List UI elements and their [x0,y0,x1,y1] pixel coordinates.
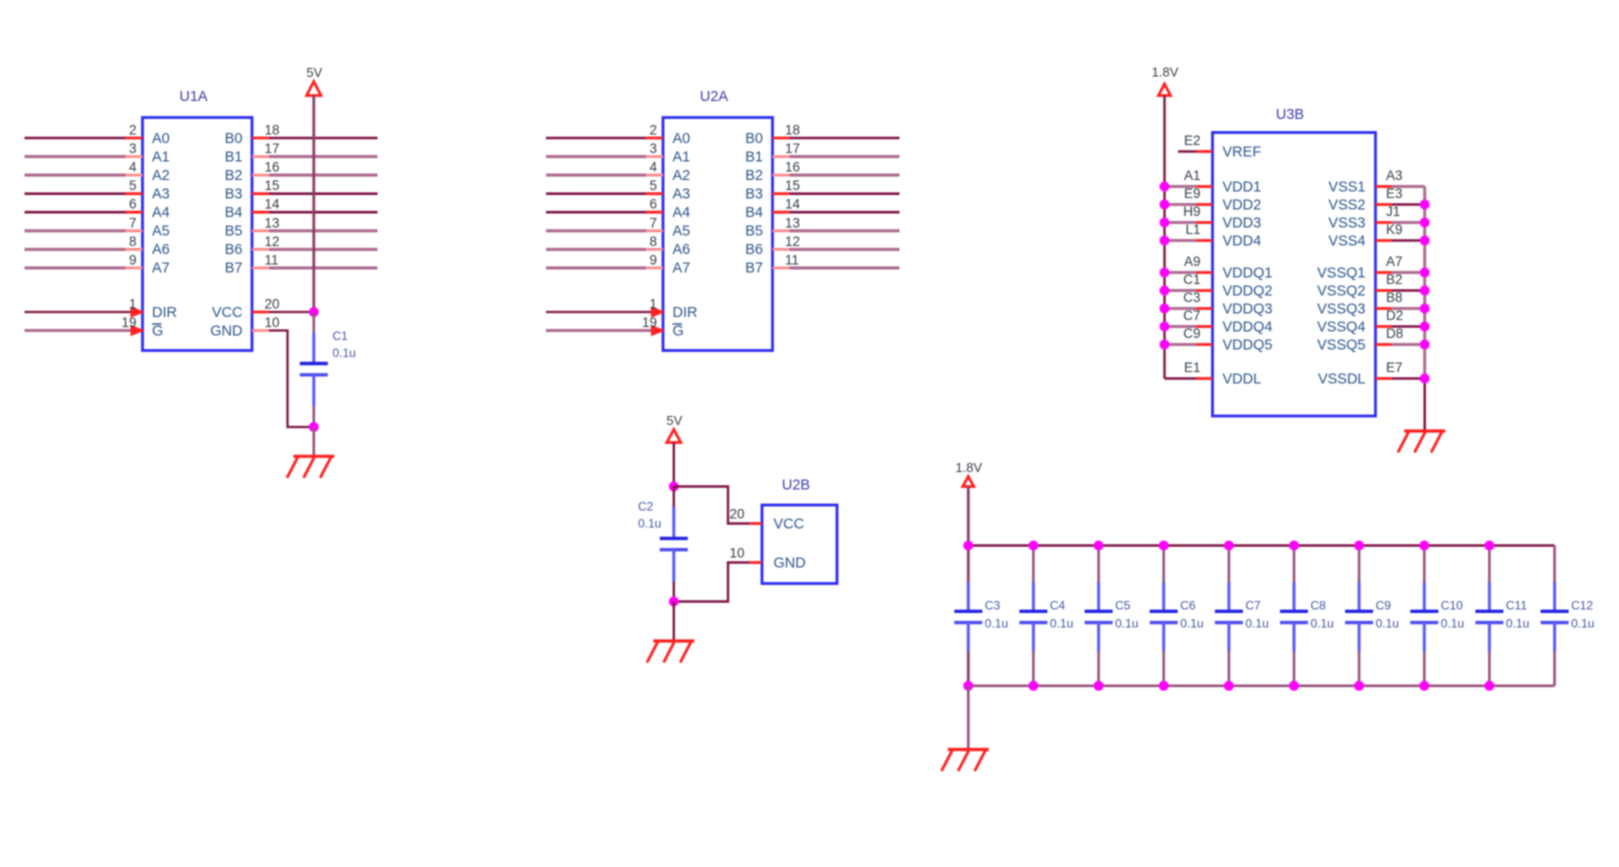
wire U1A A1 net [25,155,126,158]
svg-text:A4: A4 [673,205,691,221]
svg-text:GND: GND [774,555,806,571]
U3B pin E3 stub (VSS2) [1376,203,1392,206]
svg-text:U1A: U1A [179,89,208,105]
svg-text:VSSQ3: VSSQ3 [1317,301,1365,317]
svg-text:B1: B1 [225,149,243,165]
U3B pin H9 stub (VDD3) [1197,221,1213,224]
U1A pin 20 stub (VCC) [252,311,269,314]
U2A pin 18 stub (B0) [773,137,790,140]
svg-text:VSSQ1: VSSQ1 [1317,265,1365,281]
U1A pin 10 stub (GND) [252,329,269,332]
U2A pin 5 stub (A3) [646,192,663,195]
junction top rail / C9 [1354,541,1364,551]
wire U1A A6 net [25,248,126,251]
wire top rail branch to C4 [1032,546,1035,583]
svg-text:A3: A3 [673,187,691,203]
svg-text:A5: A5 [673,224,691,240]
wire U2A A2 net [546,174,646,177]
svg-text:0.1u: 0.1u [638,517,661,531]
U2A pin 4 stub (A2) [646,174,663,177]
svg-text:19: 19 [121,315,136,330]
U1A pin 12 stub (B6) [252,248,269,251]
svg-text:VDDQ4: VDDQ4 [1223,319,1273,335]
junction bottom rail / C9 [1354,681,1364,691]
svg-text:0.1u: 0.1u [1311,617,1334,631]
svg-text:C2: C2 [638,500,654,514]
U2A pin 7 stub (A5) [646,229,663,232]
junction bottom rail / C5 [1094,681,1104,691]
svg-text:VREF: VREF [1223,144,1262,160]
svg-text:3: 3 [129,141,137,156]
svg-text:B7: B7 [225,261,243,277]
U2A pin 2 stub (A0) [646,137,663,140]
svg-text:VDD1: VDD1 [1223,179,1262,195]
junction ground rail / VSSQ1 [1420,268,1430,278]
wire top rail branch to C9 [1358,546,1361,583]
junction 1.8V rail / VDD3 [1160,218,1170,228]
wire 1.8V rail segment to C3 [967,546,970,583]
svg-text:A1: A1 [1184,168,1201,183]
svg-text:DIR: DIR [673,305,698,321]
junction ground rail / VSSQ4 [1420,322,1430,332]
svg-text:5V: 5V [306,65,322,80]
wire U3B VSSQ4 to ground rail [1392,325,1425,327]
junction C2 / U2B GND / ground [669,597,679,607]
junction top rail / C5 [1094,541,1104,551]
svg-text:VDDQ5: VDDQ5 [1223,337,1273,353]
U2B pin 10 stub (GND) [750,561,763,564]
junction 1.8V rail / VDDQ2 [1160,286,1170,296]
wire U3B VSS3 to ground rail [1392,221,1425,224]
svg-text:18: 18 [265,123,280,138]
svg-text:0.1u: 0.1u [1441,617,1464,631]
junction ground rail / VSSQ3 [1420,304,1430,314]
wire U2A A1 net [546,155,646,158]
svg-text:VSS4: VSS4 [1328,233,1365,249]
wire C2 node to ground [673,602,675,641]
U1A pin 18 stub (B0) [252,137,269,140]
capacitor C5 [1085,582,1113,652]
wire U1A GND pin to ground node [269,331,314,428]
wire U2A A4 net [546,211,646,214]
U3B pin A9 stub (VDDQ1) [1197,271,1213,274]
C7 value labels [1245,599,1268,631]
svg-text:16: 16 [265,160,280,175]
wire 1.8V tap to U3B VDDQ4 [1165,325,1197,328]
svg-text:C9: C9 [1183,326,1200,341]
junction C1 / U1A GND / ground [309,422,319,432]
svg-text:17: 17 [265,141,280,156]
svg-text:A4: A4 [152,205,170,221]
svg-text:C12: C12 [1571,599,1593,613]
junction ground rail / VSSQ2 [1420,286,1430,296]
wire 1.8V tap to U3B VDDQ2 [1165,289,1197,292]
U1A pin 6 stub (A4) [126,211,143,214]
wire U3B VSSQ1 to ground rail [1392,271,1425,274]
ground (U1A / C1) [287,456,334,478]
wire U1A A0 net [25,137,126,140]
wire U2A B4 net [790,211,900,214]
U1A pin 9 stub (A7) [126,266,143,269]
U2A pin 16 stub (B2) [773,174,790,177]
capacitor C7 [1215,582,1243,652]
svg-text:8: 8 [129,234,137,249]
svg-text:D2: D2 [1386,308,1403,323]
wire U1A A7 net [25,266,126,269]
U3B pin C3 stub (VDDQ3) [1197,307,1213,310]
junction top rail / C8 [1289,541,1299,551]
wire U1A A3 net [25,192,126,195]
svg-text:B6: B6 [745,242,763,258]
U3B pin J1 stub (VSS3) [1376,221,1392,224]
U2A DIR input arrow [651,306,666,317]
svg-text:9: 9 [129,252,137,267]
svg-text:B3: B3 [745,187,763,203]
U3B pin A1 stub (VDD1) [1197,185,1213,188]
svg-text:C4: C4 [1050,599,1066,613]
junction U1A VCC / C1 / 5V [309,307,319,317]
svg-text:B2: B2 [745,168,763,184]
junction 1.8V rail / VDD4 [1160,236,1170,246]
junction bottom rail / C8 [1289,681,1299,691]
wire U2A A0 net [546,137,646,140]
wire C11 branch to bottom rail [1488,652,1491,686]
U1A pin 16 stub (B2) [252,174,269,177]
U3B pin E7 stub (VSSDL) [1376,377,1392,380]
C1 value labels [333,329,356,360]
svg-text:13: 13 [265,215,280,230]
svg-text:20: 20 [729,507,744,522]
ground (U2B / C2) [647,641,694,663]
svg-text:17: 17 [785,141,800,156]
C10 value labels [1441,599,1464,631]
svg-text:B2: B2 [225,168,243,184]
wire U2A B3 net [790,192,900,195]
svg-text:E1: E1 [1184,360,1201,375]
U3B pin C1 stub (VDDQ2) [1197,289,1213,292]
junction 5V / C2 / U2B VCC [669,482,679,492]
svg-text:14: 14 [265,197,281,212]
svg-text:14: 14 [785,197,801,212]
svg-text:E7: E7 [1386,360,1403,375]
U3B pin D2 stub (VSSQ4) [1376,325,1392,328]
wire U1A B3 net [269,192,378,195]
wire U3B VSS4 to ground rail [1392,239,1425,241]
junction top rail / C11 [1484,541,1494,551]
svg-text:12: 12 [785,234,800,249]
wire U3B VSSQ2 to ground rail [1392,289,1425,291]
U1A pin 14 stub (B4) [252,211,269,214]
junction bottom rail / C7 [1224,681,1234,691]
junction ground rail / VSSDL [1420,374,1430,384]
svg-text:11: 11 [785,252,799,267]
wire U1A G net [25,329,133,332]
svg-text:1: 1 [129,297,137,312]
svg-text:12: 12 [265,234,280,249]
C3 value labels [985,599,1008,631]
wire U1A A5 net [25,229,126,232]
svg-text:A1: A1 [673,149,691,165]
svg-text:B8: B8 [1386,290,1403,305]
junction 1.8V rail / VDD1 [1160,182,1170,192]
svg-text:VSS3: VSS3 [1328,215,1365,231]
svg-text:B5: B5 [745,224,763,240]
wire top rail branch to C11 [1488,546,1491,583]
svg-text:0.1u: 0.1u [1506,617,1529,631]
wire U1A VCC to 5V node [269,311,314,313]
U3B pin B2 stub (VSSQ2) [1376,289,1392,292]
U3B pin B8 stub (VSSQ3) [1376,307,1392,310]
svg-text:C3: C3 [1183,290,1200,305]
svg-text:B4: B4 [745,205,763,221]
svg-text:1.8V: 1.8V [1152,65,1179,80]
svg-text:L1: L1 [1185,222,1200,237]
svg-text:VSS2: VSS2 [1328,197,1365,213]
svg-text:0.1u: 0.1u [1180,617,1203,631]
U3B pin C9 stub (VDDQ5) [1197,343,1213,346]
wire U2A B0 net [790,137,900,140]
svg-text:13: 13 [785,215,800,230]
junction bottom rail / C6 [1159,681,1169,691]
wire U1A B7 net [269,266,378,269]
U2A pin 12 stub (B6) [773,248,790,251]
svg-text:15: 15 [265,178,280,193]
U2A pin 11 stub (B7) [773,266,790,269]
junction 1.8V rail / VDD2 [1160,200,1170,210]
svg-text:VSSDL: VSSDL [1318,371,1366,387]
U1A pin 15 stub (B3) [252,192,269,195]
wire top rail branch to C6 [1162,546,1165,583]
wire C4 branch to bottom rail [1032,652,1035,686]
svg-text:DIR: DIR [152,305,177,321]
svg-text:C1: C1 [1183,272,1200,287]
wire U2A B7 net [790,266,900,269]
svg-text:10: 10 [265,315,280,330]
wire top rail branch to C5 [1097,546,1100,583]
wire top rail branch to C7 [1228,546,1231,583]
svg-text:E2: E2 [1184,133,1201,148]
junction top rail / C7 [1224,541,1234,551]
U3B pin D8 stub (VSSQ5) [1376,343,1392,346]
junction bottom rail / C3 [963,681,973,691]
svg-text:G: G [152,323,163,339]
svg-text:C5: C5 [1115,599,1131,613]
wire top rail branch to C8 [1293,546,1296,583]
svg-text:1.8V: 1.8V [955,460,982,475]
svg-text:C6: C6 [1180,599,1196,613]
wire U2A A7 net [546,266,646,269]
junction top rail / C3 [963,541,973,551]
capacitor C6 [1150,582,1178,652]
svg-text:VDDQ2: VDDQ2 [1223,283,1273,299]
junction ground rail / VSS2 [1420,200,1430,210]
svg-text:B4: B4 [225,205,243,221]
svg-text:9: 9 [649,252,657,267]
svg-text:C1: C1 [333,329,349,343]
svg-text:C8: C8 [1311,599,1327,613]
U3B pin K9 stub (VSS4) [1376,239,1392,242]
svg-text:B7: B7 [745,261,763,277]
svg-text:19: 19 [642,315,657,330]
svg-text:VDDL: VDDL [1223,371,1262,387]
svg-text:A6: A6 [673,242,691,258]
svg-text:7: 7 [649,215,657,230]
power symbol 5V (U2B) [666,413,682,443]
wire U3B VSSDL to ground rail [1392,377,1425,380]
svg-text:B5: B5 [225,224,243,240]
U1A DIR input arrow [131,306,146,317]
C4 value labels [1050,599,1073,631]
capacitor C1 [300,312,328,427]
junction ground rail / VSS4 [1420,236,1430,246]
capacitor C2 [660,487,688,602]
svg-text:VSSQ5: VSSQ5 [1317,337,1365,353]
svg-text:0.1u: 0.1u [333,346,356,360]
svg-text:0.1u: 0.1u [985,617,1008,631]
U2B pin 20 stub (VCC) [750,522,763,525]
wire ground vertical (U3B right) [1423,187,1426,379]
wire 1.8V tap to U3B VDD2 [1165,203,1197,206]
U2A pin 3 stub (A1) [646,155,663,158]
svg-text:A7: A7 [1386,254,1403,269]
svg-text:2: 2 [649,123,657,138]
wire 5V feed to U1A VCC [312,95,315,312]
svg-text:VCC: VCC [212,305,243,321]
wire U2A B2 net [790,174,900,177]
C2 value labels [638,500,661,531]
wire bottom rail right corner to C12 [1553,652,1556,686]
svg-text:C7: C7 [1245,599,1261,613]
wire U3B VREF stub [1178,150,1197,152]
svg-text:6: 6 [649,197,657,212]
IC U2A body [663,118,773,351]
junction ground rail / VSSQ5 [1420,340,1430,350]
svg-text:VDD3: VDD3 [1223,215,1262,231]
svg-text:B3: B3 [225,187,243,203]
junction top rail / C4 [1028,541,1038,551]
wire U2A A3 net [546,192,646,195]
svg-text:A3: A3 [152,187,170,203]
wire 5V node to U2B VCC pin 20 [674,487,750,524]
junction top rail / C6 [1159,541,1169,551]
svg-text:E3: E3 [1386,186,1403,201]
wire C8 branch to bottom rail [1293,652,1296,686]
U1A pin 5 stub (A3) [126,192,143,195]
U3B pin E9 stub (VDD2) [1197,203,1213,206]
svg-text:6: 6 [129,197,137,212]
svg-text:2: 2 [129,123,137,138]
U2A pin 6 stub (A4) [646,211,663,214]
U1A pin 2 stub (A0) [126,137,143,140]
wire U1A B5 net [269,229,378,232]
svg-text:U3B: U3B [1276,107,1304,123]
capacitor C8 [1280,582,1308,652]
svg-text:3: 3 [649,141,657,156]
capacitor C9 [1345,582,1373,652]
svg-text:VCC: VCC [774,516,805,532]
svg-text:4: 4 [649,160,657,175]
wire 1.8V tap to U3B VDDQ3 [1165,307,1197,310]
wire C3 to bottom rail [967,652,970,686]
svg-text:A7: A7 [152,261,170,277]
U2A pin 17 stub (B1) [773,155,790,158]
junction 1.8V rail / VDDQ1 [1160,268,1170,278]
svg-text:A2: A2 [673,168,691,184]
svg-text:7: 7 [129,215,137,230]
wire U3B ground rail to ground symbol [1423,379,1426,431]
C11 value labels [1506,599,1529,631]
svg-text:G: G [673,323,684,339]
wire 1.8V feed to top rail [967,487,970,546]
wire U2A B6 net [790,248,900,251]
junction 1.8V rail / VDDQ5 [1160,340,1170,350]
svg-text:10: 10 [729,546,744,561]
svg-text:GND: GND [210,323,242,339]
C6 value labels [1180,599,1203,631]
wire U3B VSSQ5 to ground rail [1392,343,1425,346]
U1A pin 7 stub (A5) [126,229,143,232]
junction top rail / C10 [1419,541,1429,551]
U2A pin 13 stub (B5) [773,229,790,232]
wire 5V feed to C2/U2B node [673,443,675,487]
wire U3B VSS2 to ground rail [1392,203,1425,205]
IC U2B body [762,505,837,584]
svg-text:B0: B0 [745,131,763,147]
svg-text:A9: A9 [1184,254,1201,269]
wire 1.8V tap to U3B VDD4 [1165,239,1197,242]
wire 1.8V tap to U3B VDDQ1 [1165,271,1197,274]
U2A pin 15 stub (B3) [773,192,790,195]
svg-text:11: 11 [265,252,279,267]
junction bottom rail / C10 [1419,681,1429,691]
U3B pin E2 stub (VREF) [1197,150,1213,153]
wire 1.8V tap to U3B VDD3 [1165,221,1197,224]
wire U3B VSSQ3 to ground rail [1392,307,1425,310]
U1A pin 8 stub (A6) [126,248,143,251]
svg-text:VSSQ4: VSSQ4 [1317,319,1365,335]
svg-text:0.1u: 0.1u [1571,617,1594,631]
wire ground bottom rail [968,684,1554,687]
capacitor C4 [1019,582,1047,652]
junction bottom rail / C4 [1028,681,1038,691]
U2A G input arrow [651,325,666,336]
U1A pin 17 stub (B1) [252,155,269,158]
svg-text:A5: A5 [152,224,170,240]
svg-text:A0: A0 [673,131,691,147]
wire U2A B5 net [790,229,900,232]
wire bottom rail to ground [967,686,970,749]
svg-text:B1: B1 [745,149,763,165]
svg-text:5V: 5V [666,413,682,428]
junction bottom rail / C11 [1484,681,1494,691]
U1A pin 4 stub (A2) [126,174,143,177]
svg-text:VSS1: VSS1 [1328,179,1365,195]
svg-text:A0: A0 [152,131,170,147]
U3B pin A3 stub (VSS1) [1376,185,1392,188]
svg-text:8: 8 [649,234,657,249]
wire U1A B1 net [269,155,378,158]
capacitor C12 [1541,582,1569,652]
svg-text:C9: C9 [1376,599,1392,613]
wire C7 branch to bottom rail [1228,652,1231,686]
wire C1 to ground [312,427,315,455]
svg-text:A7: A7 [673,261,691,277]
svg-text:K9: K9 [1386,222,1403,237]
capacitor C3 [954,582,982,652]
U3B pin C7 stub (VDDQ4) [1197,325,1213,328]
svg-text:VDDQ3: VDDQ3 [1223,301,1273,317]
svg-text:U2B: U2B [782,478,810,494]
